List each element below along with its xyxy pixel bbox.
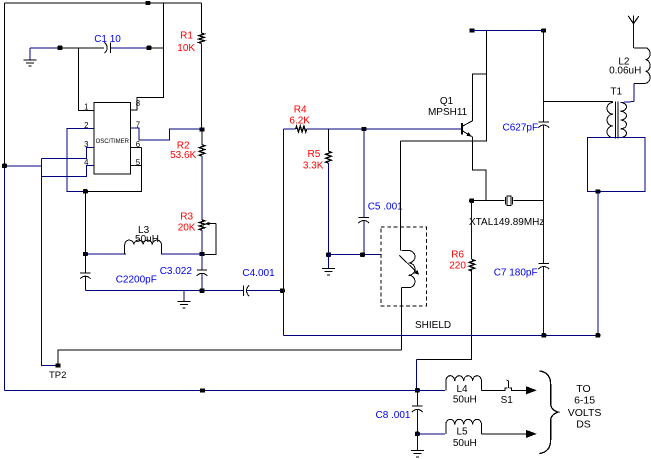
wire pin 2 down-left	[67, 129, 94, 192]
arrow to supply bottom	[526, 430, 537, 438]
wire xtal row to C7	[543, 201, 545, 264]
wire Vcc drop to pin 8	[131, 3, 164, 110]
svg-text:C8 .001: C8 .001	[375, 410, 410, 421]
wire C8 bottom lead	[416, 409, 418, 434]
svg-text:R1: R1	[180, 30, 193, 41]
svg-text:50uH: 50uH	[453, 395, 477, 406]
resistor R3 (trimmer)	[199, 220, 204, 230]
node junction dot on T1 box	[595, 189, 600, 193]
wire R4 left lead	[284, 128, 296, 130]
node junction dot emitter/R6/xtal	[469, 199, 474, 203]
transformer T1 core	[615, 102, 617, 139]
wire C8 top lead	[416, 390, 418, 406]
capacitor C4 plates	[242, 286, 244, 296]
wire T1 secondary top to L2	[621, 102, 635, 103]
ground at C3 row	[183, 291, 185, 302]
wire R3 bottom lead	[201, 230, 203, 254]
wire row R5 to shield	[329, 254, 381, 256]
wire coil bottom to TP2 rail	[401, 288, 403, 350]
wire bottom supply rail to L4	[5, 390, 418, 392]
capacitor C6 plates	[539, 121, 549, 123]
wire pin 7 jog to R2 node	[131, 128, 203, 140]
wire collector up	[473, 74, 487, 121]
wire R4 to Q1 base	[307, 128, 462, 130]
node junction dot collector rail right	[541, 28, 546, 32]
wire L4 to S1	[482, 389, 505, 391]
svg-text:R5: R5	[308, 149, 321, 160]
svg-text:OSC/TIMER: OSC/TIMER	[96, 139, 130, 145]
brace to supply	[539, 371, 558, 454]
wire main bottom rail	[284, 334, 598, 336]
svg-text:R3: R3	[180, 212, 193, 223]
wire R2 to R3	[201, 156, 203, 220]
svg-text:C1 10: C1 10	[94, 34, 121, 45]
capacitor C8 plates	[412, 405, 422, 407]
wire R3 wiper loop	[202, 224, 216, 255]
wire L5 to arrow	[482, 433, 527, 435]
transformer T1 primary winding	[607, 103, 613, 138]
transformer T1 secondary winding	[621, 103, 627, 138]
resistor R4	[296, 126, 307, 132]
node junction dot L5/C8	[415, 432, 420, 436]
resistor R2	[199, 145, 204, 156]
trimmer R3 wiper arrow	[208, 223, 216, 225]
svg-text:DS: DS	[576, 418, 591, 430]
node junction dot L4/C8	[415, 388, 420, 392]
capacitor C5 plates	[359, 216, 369, 218]
wire to L5	[417, 433, 445, 435]
wire xtal left lead	[472, 200, 505, 202]
wire L3 left lead	[85, 253, 126, 255]
node endpoint dot bottom rail right	[595, 333, 600, 337]
svg-text:C3.022: C3.022	[160, 266, 193, 277]
node junction dot C5 bottom	[360, 253, 365, 257]
wire left vertical rail	[4, 3, 6, 166]
svg-text:TO: TO	[576, 383, 590, 395]
wire C5 top lead	[363, 129, 365, 217]
wire rail to C6	[543, 31, 545, 122]
wire rail down to emitter-left wire	[401, 31, 487, 142]
wire pin 4 to left bus	[42, 166, 95, 177]
svg-text:TP2: TP2	[49, 370, 66, 381]
svg-text:R6: R6	[451, 250, 464, 261]
wire R2 top lead	[201, 130, 203, 145]
capacitor C2 plates	[80, 272, 90, 274]
svg-text:C4.001: C4.001	[242, 268, 275, 279]
wire L2 top lead to antenna	[633, 25, 635, 48]
wire down into shield coil	[400, 141, 402, 251]
capacitor C7 plates	[539, 262, 549, 264]
node junction dot C7 bottom	[541, 333, 546, 337]
wire C6 to xtal row	[543, 125, 545, 201]
wire C2 bottom lead	[84, 276, 86, 291]
wire S1 to arrow	[512, 389, 527, 391]
arrow to supply top	[526, 386, 537, 394]
wire C7 to bottom rail	[543, 267, 545, 336]
node test point TP2	[56, 363, 61, 367]
wire L3 right lead	[161, 253, 202, 255]
wire top supply rail	[5, 2, 202, 4]
wire L2 bottom lead	[633, 83, 635, 101]
svg-text:6-15: 6-15	[574, 395, 595, 407]
node dot on supply rail	[200, 388, 205, 392]
node junction dot on left rail	[2, 164, 7, 168]
wire C1 right segment	[111, 47, 149, 49]
svg-text:C627pF: C627pF	[503, 123, 539, 134]
capacitor C1 plates	[110, 43, 112, 54]
wire C2 top lead	[84, 254, 86, 273]
svg-text:R4: R4	[294, 104, 307, 115]
node junction dot C1 right	[147, 46, 152, 50]
wire pin2-node down to L3 row	[84, 191, 86, 254]
wire left bus vertical to TP2	[42, 159, 59, 366]
wire C1 left segment	[60, 47, 104, 49]
svg-text:20K: 20K	[178, 222, 196, 233]
svg-text:8: 8	[136, 99, 140, 108]
node junction dot R1/R2/pin7	[200, 127, 205, 131]
svg-text:XTAL149.89MHz: XTAL149.89MHz	[469, 217, 544, 228]
svg-text:50uH: 50uH	[453, 438, 477, 449]
ground at R5/C5 row	[328, 255, 330, 269]
node junction dot L3/R3/C3	[200, 252, 205, 256]
wire T1 primary top feed	[544, 102, 613, 103]
wire pin 1 to C1 net	[79, 48, 95, 111]
transistor Q1 base bar	[461, 123, 463, 135]
ground at C8	[416, 434, 418, 451]
svg-text:C5 .001: C5 .001	[368, 201, 403, 212]
svg-text:VOLTS: VOLTS	[568, 407, 602, 419]
capacitor C3 plates	[197, 269, 207, 271]
svg-text:L4: L4	[456, 384, 468, 395]
inductor L4	[446, 376, 482, 391]
svg-text:MPSH11: MPSH11	[428, 107, 468, 118]
node junction dot R5 bottom	[326, 253, 331, 257]
node junction dot C5 top	[361, 127, 366, 131]
svg-text:50uH: 50uH	[135, 234, 159, 245]
wire ground to C1	[30, 47, 60, 49]
wire TP2 rail	[58, 350, 402, 366]
inductor L1 tuning arrow	[400, 256, 417, 273]
wire R5 bottom lead	[328, 163, 330, 255]
inductor L2	[634, 47, 645, 49]
wire emitter down-jog to xtal row	[472, 137, 487, 201]
wire to L4	[417, 389, 445, 391]
wire C3 top lead	[201, 254, 203, 270]
wire pin 5	[131, 165, 142, 167]
transistor Q1 emitter arrowhead	[466, 132, 472, 137]
wire pins 5-6 vertical to junction	[85, 148, 141, 192]
inductor L5	[446, 419, 482, 434]
node junction dot C3 bottom	[200, 289, 205, 293]
svg-text:10K: 10K	[177, 43, 195, 54]
node junction dot C4/R4 branch	[280, 289, 285, 293]
svg-text:Q1: Q1	[440, 96, 454, 107]
wire collector top rail	[472, 30, 544, 32]
wire R1 bottom lead	[201, 43, 203, 129]
transistor Q1 emitter diagonal	[463, 131, 471, 136]
wire row C2 to C4	[85, 290, 243, 292]
svg-text:6.2K: 6.2K	[289, 116, 310, 127]
svg-text:53.6K: 53.6K	[170, 150, 196, 161]
svg-text:0.06uH: 0.06uH	[609, 65, 641, 76]
wire C4 right lead	[246, 290, 282, 292]
wire pin 3 to left bus	[42, 148, 95, 159]
ground at C1	[29, 48, 31, 60]
inductor L3	[125, 240, 162, 254]
node junction dot pin2/5/6 net	[83, 189, 88, 193]
resistor R1	[199, 33, 204, 43]
inductor L1 in shield	[402, 250, 409, 252]
crystal XTAL body	[505, 197, 507, 205]
wire C3 bottom lead	[201, 273, 203, 290]
svg-text:220: 220	[449, 260, 466, 271]
wire T1 box to bottom rail	[597, 192, 599, 336]
wire R5 top lead	[328, 129, 330, 151]
wire pin 6	[131, 147, 142, 149]
node endpoint dot collector rail left	[470, 28, 475, 32]
wire tie left rail to bus	[5, 165, 42, 167]
node junction dot L3 left	[83, 252, 88, 256]
antenna	[628, 16, 639, 26]
op-amp U1 OSC/TIMER body	[94, 103, 131, 175]
wire R6 top lead	[471, 201, 473, 260]
wire xtal right lead	[514, 200, 544, 202]
node junction dot C1 left	[58, 46, 63, 50]
node endpoint dot on top rail	[145, 1, 150, 5]
transistor Q1 collector diagonal	[463, 121, 473, 126]
wire R6 down and jog to supply rail	[417, 271, 472, 359]
svg-text:L5: L5	[456, 427, 468, 438]
svg-text:3.3K: 3.3K	[303, 160, 324, 171]
resistor R5	[326, 151, 331, 163]
wire R1 top lead	[201, 3, 203, 33]
resistor R6	[469, 260, 474, 272]
wire C1 to pin8 drop line	[149, 47, 164, 49]
transformer T1 load box	[588, 138, 646, 192]
svg-text:C2200pF: C2200pF	[116, 275, 157, 286]
svg-text:S1: S1	[501, 395, 514, 406]
svg-text:SHIELD: SHIELD	[415, 320, 451, 331]
svg-text:T1: T1	[610, 87, 622, 98]
switch S1	[504, 388, 508, 390]
wire R4-left vertical	[283, 129, 285, 335]
wire C5 bottom lead	[363, 221, 365, 255]
shield dashed box	[381, 227, 427, 306]
svg-text:C7 180pF: C7 180pF	[494, 267, 538, 278]
